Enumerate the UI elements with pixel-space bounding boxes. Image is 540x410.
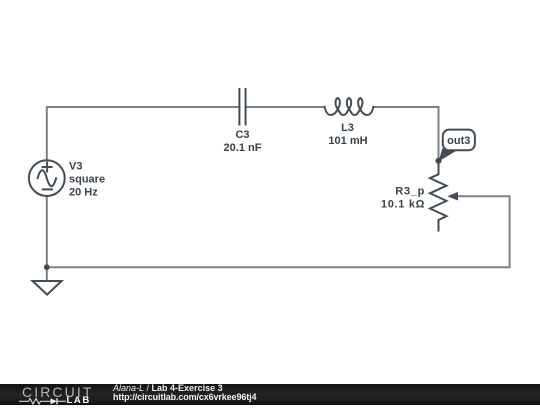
svg-text:square: square [69, 174, 105, 186]
svg-text:L3: L3 [341, 122, 354, 134]
wire source bottom to ground node [46, 196, 48, 267]
node flag out3 pointer [439, 148, 459, 161]
wire L3 to node out3 [373, 107, 438, 161]
footer url line [113, 392, 256, 402]
svg-text:10.1 kΩ: 10.1 kΩ [381, 199, 425, 211]
capacitor C3 [239, 89, 245, 125]
footer title line [113, 383, 223, 393]
CircuitLab logo LAB text [67, 395, 91, 406]
potentiometer wiper arrowhead [447, 192, 458, 201]
wire source top to C3 [47, 107, 240, 160]
svg-text:20 Hz: 20 Hz [69, 187, 98, 199]
node out3 dot [435, 158, 441, 164]
wire ground stub [46, 267, 48, 281]
wire C3 to L3 [246, 106, 325, 108]
svg-text:out3: out3 [447, 135, 470, 147]
CircuitLab logo CIRCUIT text [22, 384, 93, 400]
junction node dot (ground rail) [44, 264, 50, 270]
svg-text:V3: V3 [69, 161, 82, 173]
CircuitLab logo squiggle (resistor + diode) [19, 397, 68, 405]
wire wiper to bottom rail [47, 196, 510, 267]
ground symbol [33, 281, 62, 295]
resistor R3_p (potentiometer) [430, 161, 447, 231]
footer bar [0, 384, 540, 405]
svg-text:C3: C3 [235, 129, 249, 141]
voltage source V3 [29, 160, 65, 196]
inductor L3 [325, 98, 374, 115]
node flag out3 bubble [443, 130, 475, 151]
svg-text:20.1 nF: 20.1 nF [224, 142, 262, 154]
svg-text:R3_p: R3_p [395, 185, 425, 197]
svg-text:101 mH: 101 mH [328, 135, 367, 147]
